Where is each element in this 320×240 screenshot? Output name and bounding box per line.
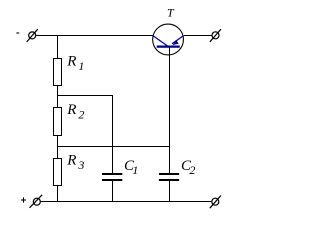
capacitor C2 bbox=[159, 47, 179, 202]
node minus label bbox=[16, 32, 19, 34]
terminal TR (collector output) bbox=[210, 29, 221, 42]
wire branch from R2-R3 junction to C2 column / transistor base bbox=[57, 146, 170, 148]
label C1 bbox=[124, 158, 138, 177]
wire transistor to TR terminal bbox=[184, 35, 212, 37]
terminal BR (emitter output) bbox=[210, 196, 221, 209]
wire R2 to R3 bbox=[57, 136, 59, 159]
svg-text:2: 2 bbox=[78, 108, 84, 122]
label R3 bbox=[66, 152, 84, 172]
label R1 bbox=[66, 54, 84, 73]
label C2 bbox=[181, 158, 195, 177]
resistor R1 bbox=[54, 59, 62, 86]
wire bottom rail bbox=[41, 201, 212, 203]
node plus label bbox=[21, 197, 26, 202]
label T bbox=[167, 5, 175, 19]
svg-text:1: 1 bbox=[132, 163, 138, 177]
wire junction down to R1 bbox=[57, 36, 59, 59]
svg-text:R: R bbox=[66, 102, 76, 118]
wire R1 to R2 bbox=[57, 86, 59, 108]
wire branch from R1-R2 junction to C1 column bbox=[57, 96, 113, 147]
svg-text:3: 3 bbox=[77, 158, 84, 172]
transistor Q1 (T) bbox=[153, 24, 184, 55]
terminal BL (positive input) bbox=[30, 195, 43, 208]
wire R3 to bottom rail bbox=[57, 186, 59, 203]
svg-text:T: T bbox=[167, 5, 175, 19]
svg-text:2: 2 bbox=[189, 163, 195, 177]
label R2 bbox=[66, 102, 84, 122]
svg-text:R: R bbox=[66, 152, 76, 168]
resistor R3 bbox=[54, 159, 62, 186]
resistor R2 bbox=[54, 108, 62, 136]
svg-text:1: 1 bbox=[78, 59, 84, 73]
capacitor C1 bbox=[102, 147, 122, 203]
terminal TL (negative input) bbox=[27, 29, 38, 42]
svg-text:R: R bbox=[66, 54, 76, 70]
wire top from TL terminal to transistor bbox=[36, 35, 153, 37]
